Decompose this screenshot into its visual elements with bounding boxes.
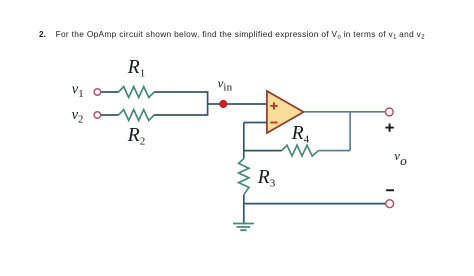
resistor R1 [119,87,155,98]
wire op-amp - input [244,122,267,124]
svg-text:v2: v2 [72,107,84,125]
label plus output [385,124,393,132]
question text [39,29,46,39]
wire R3 bottom to junction [243,195,245,204]
svg-text:R4: R4 [291,123,310,146]
wire feedback vertical (minus input down to R3 top) [243,123,245,159]
terminal output bottom [386,200,394,208]
resistor R3 [239,159,249,195]
op-amp minus sign [270,122,277,124]
label minus output [386,189,394,191]
terminal v2 [94,112,101,119]
wire R2 to node bar [154,114,207,116]
wire R4 right segment [319,150,351,152]
wire node to op-amp + input [208,103,267,105]
op-amp U1 [267,91,304,133]
svg-text:vo: vo [394,149,407,168]
resistor R2 [119,110,155,121]
svg-text:vin: vin [218,75,233,93]
wire bottom to output terminal [244,203,386,205]
wire ground stub [243,204,245,224]
wire v2 to R2 [101,114,119,116]
svg-text:R2: R2 [127,125,145,148]
terminal v1 [94,89,101,96]
wire output to terminal [304,111,386,113]
wire R1 to node bar [154,91,207,93]
op-amp plus sign [270,102,277,109]
svg-text:v1: v1 [72,81,84,100]
svg-text:R3: R3 [257,167,276,190]
wire v1 to R1 [101,91,119,93]
node vin junction dot [219,100,227,108]
wire R4 left segment [244,150,282,152]
wire vertical joining bar [207,91,209,116]
resistor R4 [282,145,319,156]
svg-text:R1: R1 [127,57,145,80]
wire output branch vertical down to R4 [349,112,351,151]
ground [233,224,254,231]
terminal output top [385,108,393,116]
